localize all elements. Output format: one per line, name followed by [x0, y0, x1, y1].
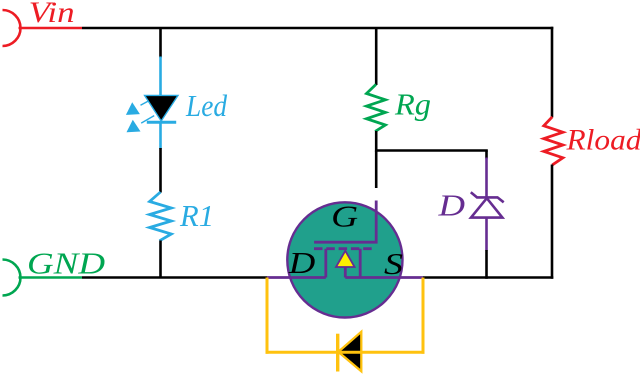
LED emission arrow 2 [127, 116, 155, 133]
terminal GND [3, 260, 21, 296]
svg-text:Rload: Rload [565, 124, 640, 157]
svg-text:Vin: Vin [29, 0, 75, 29]
wire top rail [82, 27, 553, 30]
diode D zener bar [471, 192, 504, 202]
mosfet bulk arrow [336, 251, 355, 267]
svg-text:G: G [331, 198, 358, 233]
wire body-diode left vertical (gold) [266, 278, 269, 354]
resistor Rload [544, 117, 563, 165]
terminal Vin [3, 10, 21, 46]
mosfet channel (dashed) [314, 247, 376, 250]
wire LED anode (cyan) [159, 57, 162, 97]
wire body-diode right vertical (gold) [422, 278, 425, 354]
svg-text:D: D [288, 245, 316, 280]
LED cathode bar [147, 121, 176, 124]
svg-text:Rg: Rg [394, 87, 431, 122]
body diode triangle [338, 332, 361, 372]
wire R1 bottom [159, 241, 162, 278]
wire bottom rail right [423, 276, 553, 279]
mosfet drain stub [324, 249, 327, 278]
wire zener top (purple) [485, 158, 488, 199]
diode D triangle [471, 198, 502, 217]
mosfet gate lead (purple) [314, 201, 376, 243]
mosfet bulk stem [344, 267, 347, 278]
wire zener top (black) [485, 151, 488, 159]
MOSFET body circle [287, 202, 402, 317]
LED emission arrow 1 [126, 98, 154, 115]
svg-text:GND: GND [27, 245, 105, 280]
svg-text:S: S [384, 246, 403, 281]
wire bottom rail left [82, 276, 267, 279]
wire body-diode bottom (gold) [266, 351, 425, 354]
resistor Rg [367, 84, 386, 131]
wire Rg bottom to junction [375, 131, 378, 152]
mosfet source lead (purple) [345, 276, 423, 279]
svg-text:D: D [437, 187, 465, 222]
svg-text:Led: Led [185, 88, 227, 123]
wire gate branch (black) [375, 151, 378, 189]
wire mid rail [375, 149, 488, 152]
wire Rload bottom [551, 165, 554, 279]
wire Rg branch top [375, 28, 378, 85]
wire LED to R1 (black) [159, 148, 162, 193]
wire zener bottom (black) [485, 250, 488, 279]
mosfet source stub [359, 249, 362, 278]
wire Vin lead (red) [19, 27, 83, 30]
body diode cathode bar [336, 334, 339, 372]
LED Led triangle [145, 95, 178, 121]
wire LED branch top (black) [159, 28, 162, 58]
wire Rload top [551, 27, 554, 118]
mosfet drain lead (purple) [267, 276, 326, 279]
resistor R1 [150, 192, 172, 241]
svg-text:R1: R1 [179, 198, 214, 233]
wire GND lead (green) [19, 276, 83, 279]
wire zener bottom (purple) [485, 218, 488, 251]
wire LED cathode (cyan) [159, 122, 162, 149]
